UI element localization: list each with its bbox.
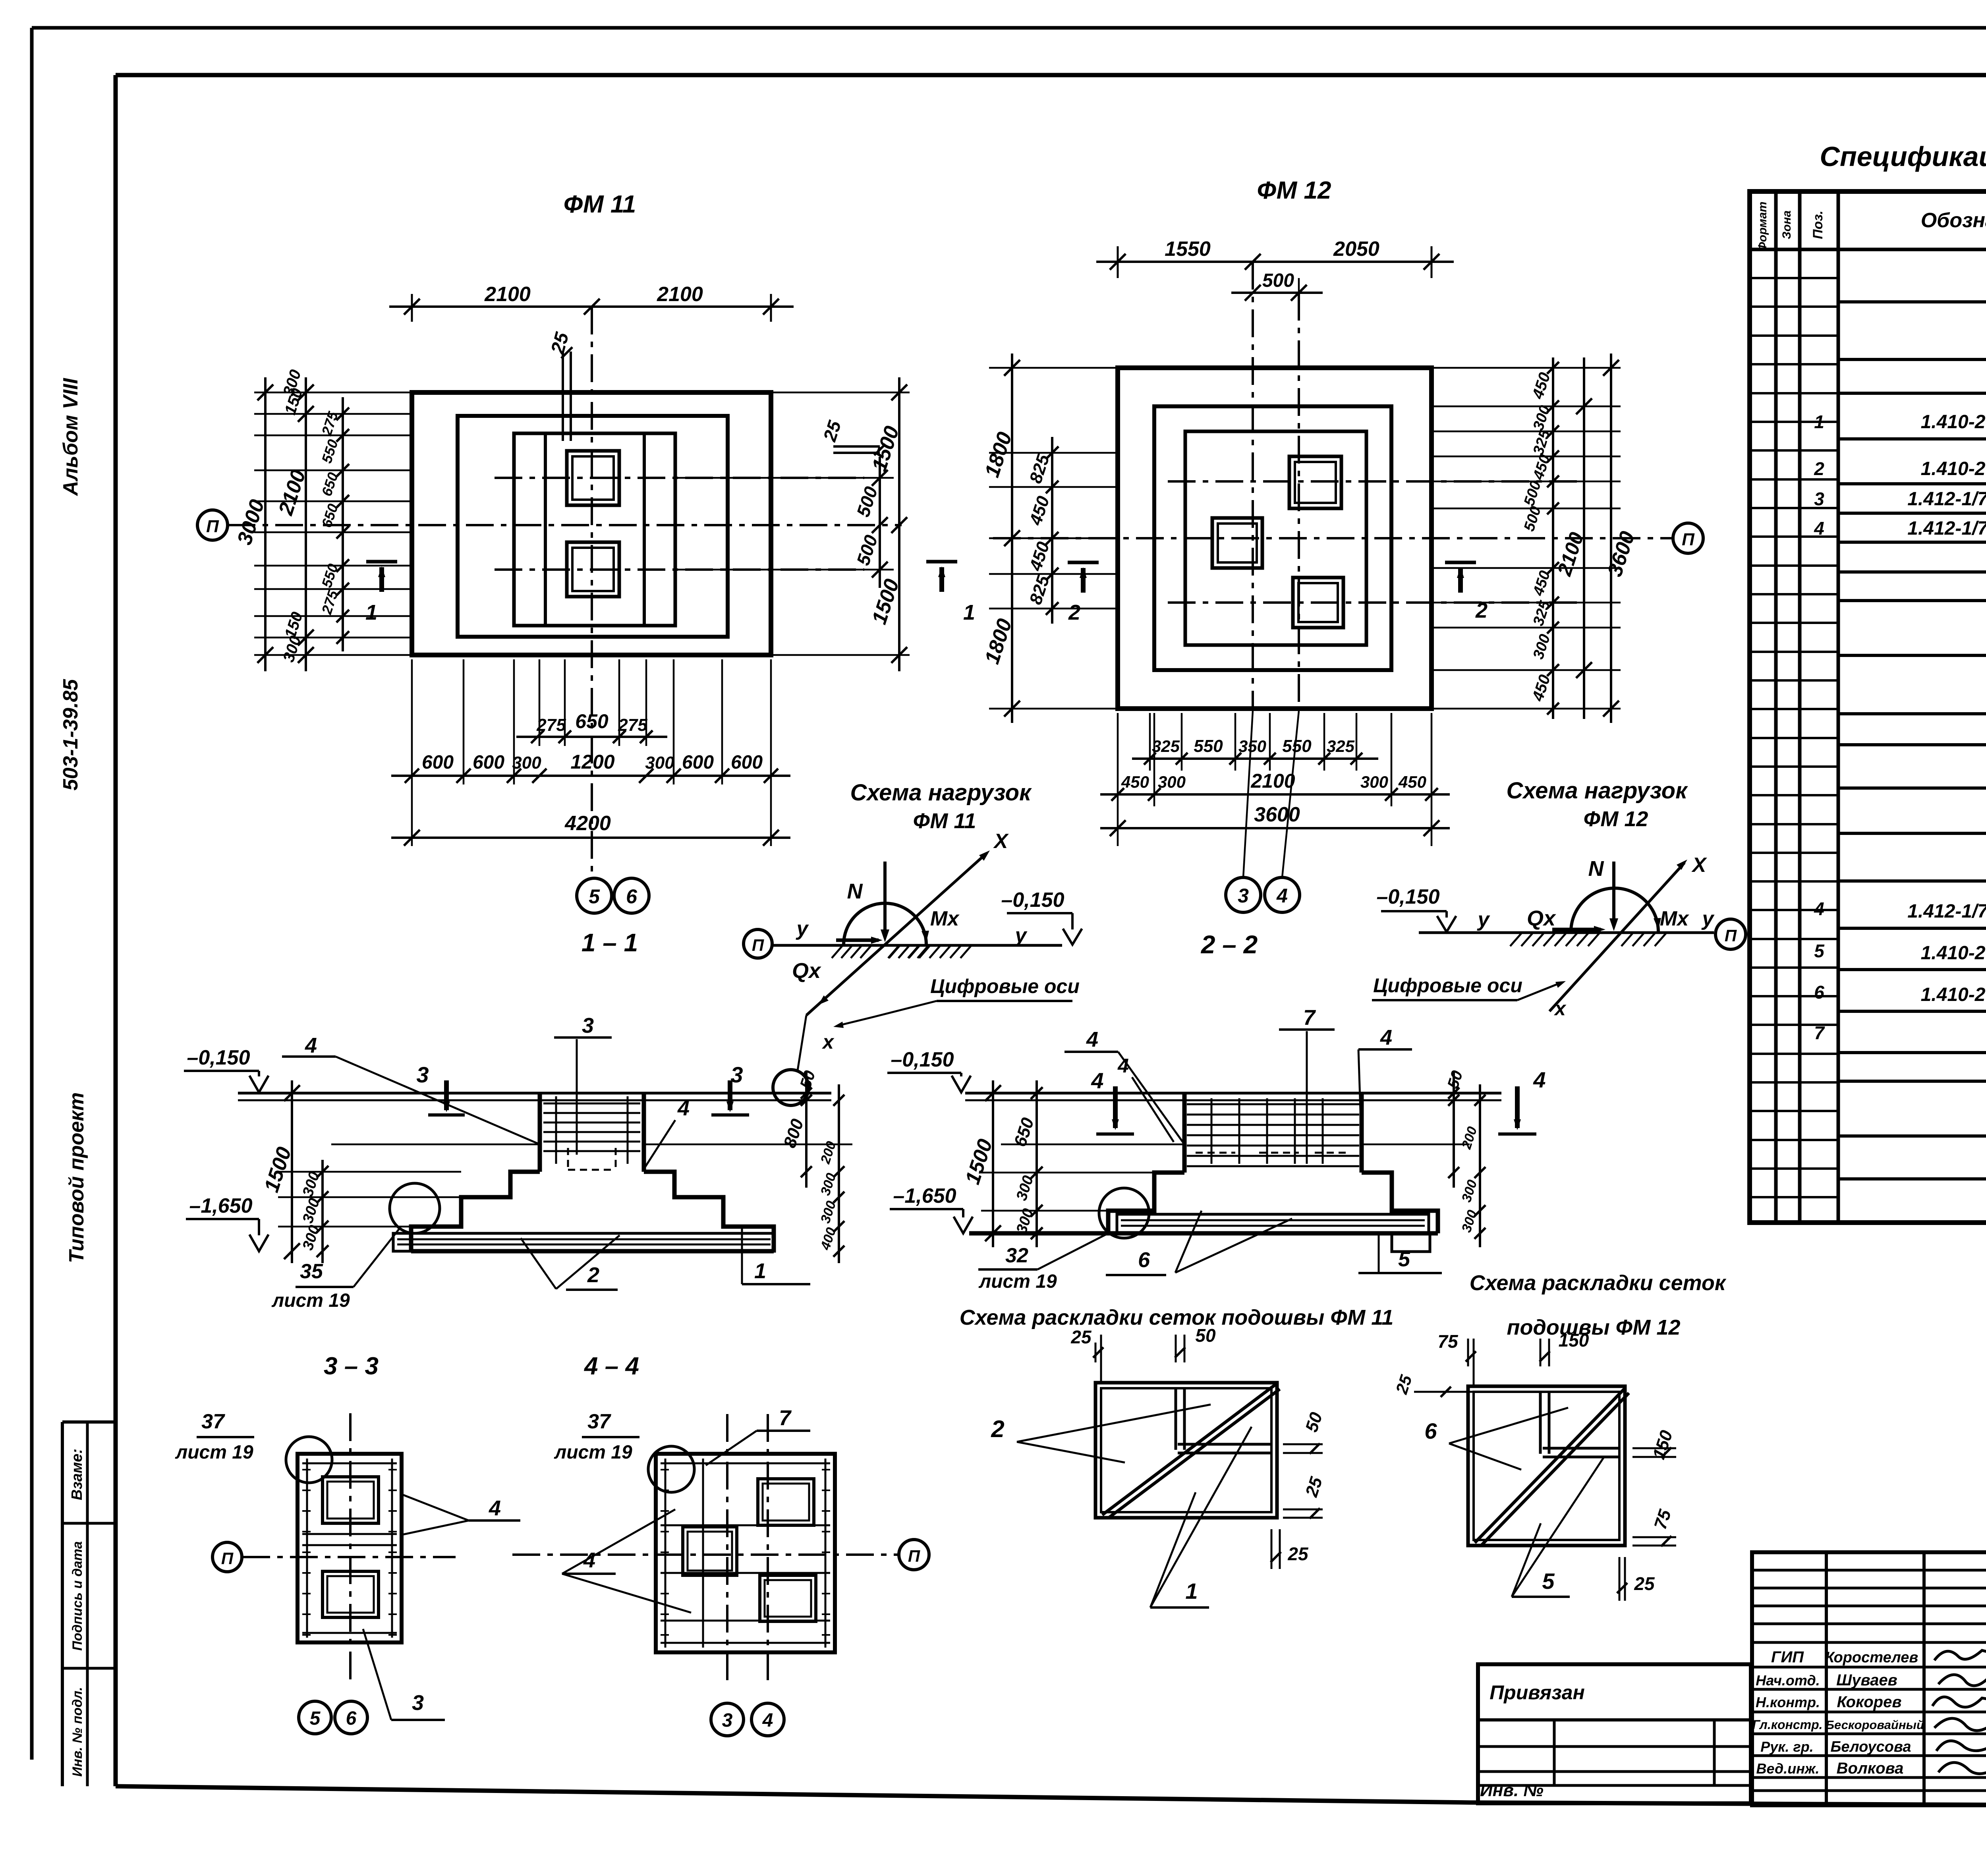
section 4-4 inner grid lines: [661, 1524, 830, 1526]
svg-text:3: 3: [416, 1062, 429, 1087]
section 1-1 detail circle: [390, 1183, 440, 1233]
FM11 dim 25 right: [833, 445, 880, 448]
section 3-3 vertical centerline: [349, 1413, 352, 1685]
section 2-2 pedestal mesh bars: [1187, 1103, 1359, 1105]
svg-text:350: 350: [1238, 737, 1266, 755]
mesh layout FM11 inner horizontal divider: [1178, 1443, 1271, 1446]
svg-text:7: 7: [1303, 1006, 1316, 1030]
signatures scribbles: [1934, 1650, 1986, 1660]
FM12 bottom extension lines: [1117, 713, 1119, 846]
svg-text:650: 650: [575, 710, 609, 732]
svg-text:325: 325: [1327, 737, 1355, 755]
svg-text:Бескоровайный: Бескоровайный: [1826, 1718, 1924, 1732]
FM11 slab outline: [412, 392, 771, 655]
FM12 top dimension 1550 2050: [1117, 246, 1119, 278]
svg-text:П: П: [908, 1547, 920, 1565]
FM11 left dim chain 2100: [305, 377, 307, 671]
section 2-2 right dim chain fine: [1479, 1084, 1481, 1247]
svg-text:300: 300: [645, 753, 674, 773]
svg-text:у: у: [1014, 924, 1028, 947]
svg-text:Волкова: Волкова: [1837, 1760, 1904, 1777]
svg-text:25: 25: [1634, 1573, 1655, 1594]
section 4-4 vertical centerlines: [726, 1414, 728, 1685]
section 2-2 ground lines: [965, 1092, 1501, 1095]
spec table narrow-column row lines: [1750, 277, 1838, 279]
svg-text:2100: 2100: [484, 283, 531, 306]
svg-text:37: 37: [587, 1410, 611, 1433]
svg-text:Схема нагрузок: Схема нагрузок: [1506, 778, 1688, 804]
FM12 axis circle 3: [1226, 877, 1261, 912]
svg-text:–0,150: –0,150: [187, 1046, 250, 1069]
FM12 left dim chain 1800 1800: [1011, 354, 1013, 723]
svg-text:4: 4: [1380, 1026, 1392, 1049]
svg-text:3: 3: [1814, 489, 1824, 509]
FM12 upper column axis: [1168, 480, 1581, 483]
FM12 left fine chain 825 450 450 825: [1051, 437, 1053, 624]
section 1-1 bottom line: [411, 1249, 774, 1254]
section 1-1 mesh level lines: [331, 1144, 540, 1146]
load scheme FM11 lower axis circle: [773, 1070, 809, 1105]
mesh layout FM11 diagonal: [1102, 1384, 1276, 1515]
section 4-4 column box top-right: [758, 1479, 814, 1525]
section 3-3 mesh rect inner lines: [306, 1459, 308, 1638]
section 1-1 pedestal outline: [538, 1093, 542, 1172]
FM12 right extension lines: [1432, 367, 1621, 369]
mesh layout FM11 inner vertical divider: [1175, 1388, 1177, 1450]
left margin bottom table: [62, 1420, 115, 1424]
section 2-2 left extension lines: [981, 1172, 1154, 1174]
load scheme FM11 X axis diagonal: [806, 853, 987, 1015]
svg-text:275: 275: [618, 715, 647, 735]
FM12 dim 500: [1231, 292, 1323, 294]
spec table header row: [1750, 248, 1986, 251]
signature table upper empty rows: [1752, 1569, 1986, 1572]
FM12 dim line 450 300 2100 300 450: [1100, 793, 1450, 796]
svg-text:450: 450: [1121, 773, 1149, 791]
svg-text:Инв. №: Инв. №: [1480, 1781, 1544, 1800]
section 1-1 left extension lines: [278, 1171, 461, 1173]
svg-text:4200: 4200: [564, 812, 611, 835]
section 1-1 ground lines: [238, 1092, 831, 1095]
svg-text:4: 4: [1086, 1028, 1098, 1051]
svg-text:подошвы ФМ 12: подошвы ФМ 12: [1507, 1316, 1681, 1339]
section 2-2 detail circle: [1099, 1188, 1149, 1238]
FM12 column box bottom-right: [1293, 578, 1343, 628]
FM12 column box mid-left: [1212, 518, 1262, 568]
svg-text:1.410-2 вып. 1: 1.410-2 вып. 1: [1921, 943, 1986, 964]
svg-text:275: 275: [536, 715, 566, 735]
section 1-1 dim 1500: [291, 1080, 293, 1263]
signature table person rows: [1752, 1666, 1986, 1669]
svg-text:П: П: [752, 936, 764, 954]
svg-text:–1,650: –1,650: [893, 1184, 956, 1208]
svg-text:4 – 4: 4 – 4: [583, 1352, 639, 1380]
svg-text:550: 550: [1282, 736, 1312, 756]
svg-text:у: у: [1477, 908, 1491, 931]
signature table columns: [1825, 1552, 1828, 1805]
section 4-4 column box mid-left: [683, 1527, 737, 1575]
svg-text:25: 25: [1287, 1544, 1309, 1564]
svg-text:П: П: [1682, 530, 1695, 549]
section 2-2 bottom mesh band: [1117, 1214, 1429, 1233]
section 1-1 pedestal mesh bars: [543, 1103, 640, 1105]
svg-text:лист 19: лист 19: [554, 1442, 632, 1463]
FM11 upper column axis: [495, 477, 864, 479]
section 2-2 step outline right: [1362, 1173, 1438, 1233]
svg-text:Подпись и дата: Подпись и дата: [70, 1541, 85, 1651]
svg-text:ГИП: ГИП: [1771, 1648, 1804, 1666]
FM11 dim line 600-600-300-1200-300-600-600: [391, 775, 790, 777]
svg-text:Белоусова: Белоусова: [1831, 1739, 1911, 1755]
svg-text:4: 4: [1091, 1068, 1103, 1093]
section 1-1 dim 300 chain: [321, 1160, 324, 1263]
svg-text:1550: 1550: [1165, 238, 1211, 261]
svg-text:2: 2: [587, 1263, 599, 1287]
svg-text:–1,650: –1,650: [189, 1194, 252, 1217]
svg-text:N: N: [847, 879, 863, 903]
svg-text:37: 37: [201, 1410, 225, 1433]
section 4-4 column box bottom-right: [760, 1575, 816, 1621]
FM11 section mark 1 right: [926, 560, 957, 564]
FM12 section mark 2 left: [1068, 561, 1099, 564]
svg-text:5: 5: [1814, 941, 1825, 961]
FM12 right columns centerline: [1298, 293, 1300, 709]
svg-text:лист 19: лист 19: [978, 1271, 1057, 1292]
svg-text:6: 6: [346, 1708, 357, 1729]
svg-text:3: 3: [582, 1014, 594, 1037]
svg-text:4: 4: [1814, 898, 1824, 919]
svg-text:1: 1: [963, 601, 975, 624]
section 2-2 mesh level lines: [1001, 1144, 1184, 1146]
svg-text:325: 325: [1152, 737, 1180, 755]
section 1-1 right dim 200 300 400 chain: [838, 1084, 840, 1263]
svg-text:3: 3: [1238, 885, 1249, 907]
title block privyazan cell line: [1478, 1718, 1751, 1721]
svg-text:5: 5: [1398, 1247, 1410, 1271]
svg-text:ФМ 12: ФМ 12: [1584, 807, 1648, 831]
svg-text:1.410-2 вып. 1: 1.410-2 вып. 1: [1921, 412, 1986, 433]
FM12 dim line 3600 bottom: [1100, 827, 1450, 829]
section 2-2 right dim 50 chain: [1453, 1072, 1455, 1188]
svg-text:75: 75: [1437, 1331, 1459, 1352]
FM11 axis circle 6: [614, 878, 649, 913]
FM12 axis P circle: [1673, 523, 1703, 553]
svg-text:600: 600: [473, 752, 504, 773]
section 2-2 dim 650 chain: [1036, 1080, 1038, 1247]
sheet outer border left: [30, 28, 34, 1760]
FM12 lower column axis: [1168, 601, 1581, 604]
svg-text:7: 7: [779, 1406, 792, 1430]
FM12 right dim chain 3600: [1610, 354, 1612, 723]
section 2-2 dim 1500: [992, 1080, 994, 1247]
section 2-2 step outline left: [1108, 1173, 1184, 1233]
section 4-4 axis P line: [512, 1553, 899, 1556]
FM12 left extension lines: [989, 367, 1118, 369]
svg-text:ФМ 11: ФМ 11: [913, 809, 976, 833]
svg-text:–0,150: –0,150: [1001, 889, 1064, 912]
svg-text:Кокорев: Кокорев: [1837, 1693, 1901, 1711]
svg-text:N: N: [1588, 857, 1604, 881]
FM12 column box top-right: [1289, 456, 1341, 508]
svg-text:450: 450: [1398, 773, 1426, 791]
load scheme FM12 ground line: [1419, 931, 1714, 934]
FM12 inner step outline: [1185, 431, 1366, 645]
FM11 column box lower: [567, 542, 619, 597]
section 2-2 bottom right notch: [1392, 1233, 1430, 1252]
FM12 dim line 325 550 350 550 325: [1132, 757, 1378, 760]
svg-text:ФМ 12: ФМ 12: [1257, 177, 1331, 204]
svg-text:4: 4: [677, 1096, 690, 1120]
svg-text:Мх: Мх: [1660, 907, 1689, 930]
svg-text:7: 7: [1814, 1022, 1825, 1043]
svg-text:600: 600: [422, 752, 454, 773]
FM11 bottom extension lines: [411, 659, 413, 846]
mesh layout FM11 outer square: [1095, 1383, 1277, 1518]
load scheme FM11 N force arrow: [883, 862, 887, 937]
svg-text:Шуваев: Шуваев: [1836, 1671, 1897, 1689]
svg-text:1: 1: [754, 1259, 766, 1283]
svg-text:4: 4: [1814, 518, 1824, 539]
FM12 right dim chain 2100: [1583, 357, 1585, 719]
svg-text:300: 300: [1158, 773, 1186, 791]
svg-text:1.412-1/77 вып. 3: 1.412-1/77 вып. 3: [1907, 518, 1986, 539]
svg-text:1.410-2 вып. 1: 1.410-2 вып. 1: [1921, 458, 1986, 479]
FM11 section mark 1 left: [366, 560, 397, 564]
load scheme FM11 Mx moment arc: [844, 903, 926, 945]
svg-text:4: 4: [762, 1710, 773, 1731]
svg-text:Привязан: Привязан: [1489, 1681, 1585, 1704]
FM12 step outline: [1154, 406, 1391, 670]
svg-text:1.412-1/77 вып. 3: 1.412-1/77 вып. 3: [1907, 489, 1986, 510]
svg-text:550: 550: [1194, 736, 1223, 756]
svg-text:3 – 3: 3 – 3: [324, 1352, 379, 1380]
svg-text:Поз.: Поз.: [1810, 211, 1826, 239]
section 3-3 mesh rect outer: [298, 1454, 402, 1642]
FM12 main vertical centerline: [1252, 262, 1254, 709]
svg-text:2100: 2100: [657, 283, 703, 306]
signature table frame: [1752, 1552, 1986, 1805]
spec table column lines: [1774, 191, 1778, 1223]
svg-text:2: 2: [991, 1416, 1004, 1442]
svg-text:32: 32: [1005, 1244, 1028, 1267]
svg-text:Н.контр.: Н.контр.: [1756, 1694, 1820, 1710]
svg-text:150: 150: [1559, 1330, 1589, 1350]
svg-text:5: 5: [1542, 1569, 1555, 1594]
title block left extension box: [1478, 1664, 1751, 1803]
svg-text:Зона: Зона: [1780, 211, 1793, 239]
FM11 axis P circle: [197, 510, 228, 540]
svg-text:1.410-2 вып. 1: 1.410-2 вып. 1: [1921, 984, 1986, 1005]
svg-text:1.412-1/77 вып. 3: 1.412-1/77 вып. 3: [1907, 901, 1986, 922]
FM11 step outline: [458, 416, 728, 637]
FM11 vertical centerline: [591, 307, 593, 877]
FM11 axis circle 5: [577, 878, 612, 913]
FM12 slab outline: [1118, 368, 1432, 709]
FM11 top dimension 2100 2100: [411, 294, 413, 322]
FM11 axis P horizontal centerline: [228, 524, 902, 526]
svg-text:Рук. гр.: Рук. гр.: [1760, 1739, 1814, 1755]
section 4-4 detail circle: [648, 1446, 694, 1492]
FM11 column box upper: [567, 451, 619, 505]
load scheme FM12 hatching: [1510, 933, 1521, 946]
svg-text:Х: Х: [993, 830, 1009, 853]
section 3-3 column box upper: [323, 1477, 379, 1523]
svg-text:Гл.констр.: Гл.констр.: [1752, 1718, 1823, 1732]
FM11 left fine dim chain: [342, 397, 344, 651]
FM12 axis leaders to circles: [1243, 711, 1253, 877]
svg-text:600: 600: [682, 752, 714, 773]
section 1-1 step outline left: [411, 1172, 540, 1251]
load scheme FM12 axis P circle: [1716, 919, 1746, 949]
load scheme FM11 ground line: [772, 944, 1062, 947]
svg-text:у: у: [796, 917, 809, 940]
svg-text:1200: 1200: [570, 751, 614, 773]
svg-text:Схема нагрузок: Схема нагрузок: [850, 780, 1032, 806]
svg-text:Типовой проект: Типовой проект: [65, 1092, 88, 1263]
spec table wide row lines: [1838, 300, 1986, 303]
svg-text:Обозначение: Обозначение: [1921, 209, 1986, 232]
svg-text:6: 6: [626, 885, 638, 908]
svg-text:Схема раскладки сеток подош: Схема раскладки сеток подошвы ФМ 11: [960, 1306, 1394, 1329]
svg-text:Спецификация фундаментов Ф: Спецификация фундаментов ФМ 11, ФМ 12: [1820, 141, 1986, 172]
svg-text:4: 4: [1117, 1055, 1129, 1077]
svg-text:3600: 3600: [1254, 803, 1300, 826]
section 1-1 right dim 50 chain: [805, 1072, 808, 1188]
svg-text:2 – 2: 2 – 2: [1201, 930, 1258, 959]
svg-text:1: 1: [365, 601, 377, 624]
section 4-4 mesh rect outer: [656, 1454, 835, 1652]
svg-text:Нач.отд.: Нач.отд.: [1756, 1672, 1820, 1689]
mesh layout FM12 inner vertical divider: [1539, 1392, 1542, 1454]
mesh layout FM12 outer square: [1468, 1386, 1625, 1546]
drawing frame left: [114, 75, 118, 1786]
svg-text:1 – 1: 1 – 1: [582, 928, 638, 957]
svg-text:Вед.инж.: Вед.инж.: [1756, 1760, 1820, 1777]
svg-text:П: П: [221, 1549, 234, 1568]
svg-text:Х: Х: [1691, 854, 1708, 877]
svg-text:3: 3: [730, 1062, 743, 1087]
load scheme FM12 X axis diagonal: [1549, 863, 1685, 1011]
svg-text:1: 1: [1814, 412, 1824, 432]
svg-text:3: 3: [722, 1710, 733, 1731]
svg-text:Альбом VIII: Альбом VIII: [59, 378, 82, 497]
svg-text:35: 35: [300, 1260, 323, 1283]
title block left grid columns: [1553, 1720, 1556, 1785]
svg-text:Схема раскладки сеток: Схема раскладки сеток: [1470, 1271, 1727, 1295]
svg-text:Инв. № подл.: Инв. № подл.: [70, 1687, 85, 1777]
svg-text:ФМ 11: ФМ 11: [564, 191, 636, 218]
svg-text:503-1-39.85: 503-1-39.85: [59, 679, 82, 791]
FM12 right fine dim chain: [1552, 357, 1554, 719]
sheet outer border top: [32, 26, 1986, 30]
FM12 axis P horizontal: [993, 537, 1673, 539]
load scheme FM11 axis P circle: [744, 929, 772, 958]
svg-text:2100: 2100: [1250, 770, 1295, 792]
svg-text:х: х: [821, 1031, 835, 1053]
svg-text:Взаме:: Взаме:: [69, 1449, 85, 1500]
section 4-4 axis circle 4: [752, 1703, 784, 1736]
svg-text:4: 4: [1533, 1067, 1546, 1092]
svg-text:Коростелев: Коростелев: [1825, 1649, 1918, 1666]
svg-text:1: 1: [1185, 1578, 1198, 1604]
drawing frame top: [116, 73, 1986, 77]
svg-text:600: 600: [731, 752, 763, 773]
section 3-3 axis P line: [242, 1556, 456, 1558]
section 3-3 axis P circle: [213, 1542, 242, 1572]
svg-text:2: 2: [1814, 458, 1824, 479]
svg-text:300: 300: [512, 753, 541, 773]
svg-text:6: 6: [1424, 1418, 1437, 1443]
svg-text:у: у: [1701, 907, 1715, 930]
spec table outer frame: [1750, 191, 1986, 1223]
svg-text:–0,150: –0,150: [891, 1048, 954, 1071]
svg-text:–0,150: –0,150: [1376, 885, 1439, 908]
FM11 right dim chain 500 500: [879, 457, 881, 588]
svg-text:4: 4: [1276, 885, 1288, 907]
svg-text:Цифровые оси: Цифровые оси: [930, 975, 1080, 997]
FM11 dim line 4200: [391, 837, 790, 839]
svg-text:4: 4: [489, 1496, 501, 1520]
svg-text:лист 19: лист 19: [271, 1290, 350, 1311]
svg-text:6: 6: [1814, 982, 1824, 1003]
load scheme FM12 N force arrow: [1612, 862, 1615, 925]
FM11 right dim chain 1500 1500: [898, 377, 900, 671]
section 3-3 internal mesh bars: [302, 1533, 397, 1535]
section 4-4 axis circle 3: [711, 1703, 744, 1736]
svg-text:3: 3: [412, 1691, 424, 1715]
svg-text:Формат: Формат: [1756, 201, 1769, 251]
FM11 inner step outline: [514, 433, 675, 626]
FM11 lower column axis: [495, 568, 864, 571]
svg-text:300: 300: [1360, 773, 1388, 791]
svg-text:П: П: [1725, 926, 1737, 945]
mesh layout FM12 diagonal: [1475, 1388, 1625, 1543]
section 4-4 axis P circle: [899, 1540, 929, 1570]
svg-text:2: 2: [1068, 601, 1080, 624]
section 2-2 pedestal outline: [1182, 1093, 1187, 1173]
svg-text:4: 4: [305, 1034, 317, 1057]
svg-text:5: 5: [589, 885, 600, 908]
mesh layout FM12 inner horizontal divider: [1543, 1447, 1619, 1450]
svg-text:500: 500: [1262, 270, 1294, 291]
FM11 left dim chain 3000: [264, 377, 267, 671]
svg-text:2050: 2050: [1333, 238, 1379, 261]
svg-text:50: 50: [1195, 1325, 1216, 1346]
FM11 right extension lines: [771, 392, 910, 394]
section 2-2 bottom line: [969, 1231, 1438, 1236]
load scheme FM11 hatching: [832, 946, 842, 958]
section 3-3 column box lower: [323, 1571, 379, 1617]
svg-text:Qх: Qх: [792, 959, 821, 983]
section 1-1 step outline right: [644, 1172, 774, 1251]
FM12 section mark 2 right: [1445, 561, 1476, 564]
section 1-1 bottom mesh band: [393, 1233, 775, 1251]
section 3-3 detail circle: [286, 1437, 332, 1483]
svg-text:х: х: [1553, 997, 1567, 1020]
section 3-3 axis circle 6: [335, 1701, 367, 1734]
svg-text:П: П: [206, 517, 219, 536]
svg-text:Qх: Qх: [1527, 906, 1556, 930]
svg-text:Мх: Мх: [930, 907, 960, 930]
section 4-4 internal mesh ticks: [661, 1469, 669, 1470]
svg-text:Цифровые оси: Цифровые оси: [1373, 974, 1522, 997]
FM11 left extension lines: [254, 392, 412, 394]
section 4-4 mesh rect inner lines: [665, 1459, 667, 1648]
title block left grid rows: [1478, 1745, 1751, 1748]
FM11 dim line 275 650 275: [516, 736, 667, 738]
load scheme FM12 Mx moment arc: [1571, 888, 1658, 932]
drawing frame bottom: [116, 1786, 1986, 1807]
